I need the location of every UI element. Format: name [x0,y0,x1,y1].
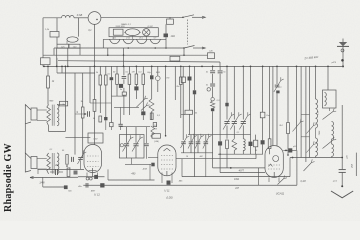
svg-text:UCL: UCL [139,37,143,39]
svg-text:1M: 1M [154,129,157,131]
svg-text:U 11: U 11 [164,189,170,193]
svg-text:0,1: 0,1 [50,149,53,151]
svg-text:0k1: 0k1 [279,125,282,127]
svg-text:15W 30Ω: 15W 30Ω [115,26,125,28]
svg-text:U 11: U 11 [112,37,116,39]
svg-text:UCH11: UCH11 [276,192,285,196]
svg-text:0,1: 0,1 [126,72,129,74]
svg-text:U 11: U 11 [126,37,130,39]
svg-text:SPE: SPE [156,72,161,74]
svg-text:MABL 0,1: MABL 0,1 [121,23,131,26]
svg-text:1M: 1M [132,72,135,74]
svg-text:0,1M: 0,1M [148,26,153,28]
svg-text:1/4W: 1/4W [39,182,45,185]
svg-text:4M: 4M [200,155,203,158]
svg-text:1kΩ: 1kΩ [171,35,176,38]
svg-text:(L00): (L00) [166,196,172,200]
svg-text:0,1: 0,1 [108,74,111,76]
svg-text:-4977: -4977 [238,169,245,172]
svg-text:(L04): (L04) [154,140,159,143]
svg-text:-494: -494 [142,167,147,170]
svg-text:0,1: 0,1 [154,125,157,127]
svg-text:0 AB: 0 AB [77,13,83,17]
svg-text:12K: 12K [61,46,65,48]
svg-text:U 11: U 11 [94,193,100,197]
svg-text:0,1M: 0,1M [300,181,305,183]
svg-text:µ0,1: µ0,1 [333,181,337,183]
svg-text:1992: 1992 [234,179,240,181]
svg-text:0,1: 0,1 [237,132,240,134]
svg-text:-490: -490 [131,173,136,176]
